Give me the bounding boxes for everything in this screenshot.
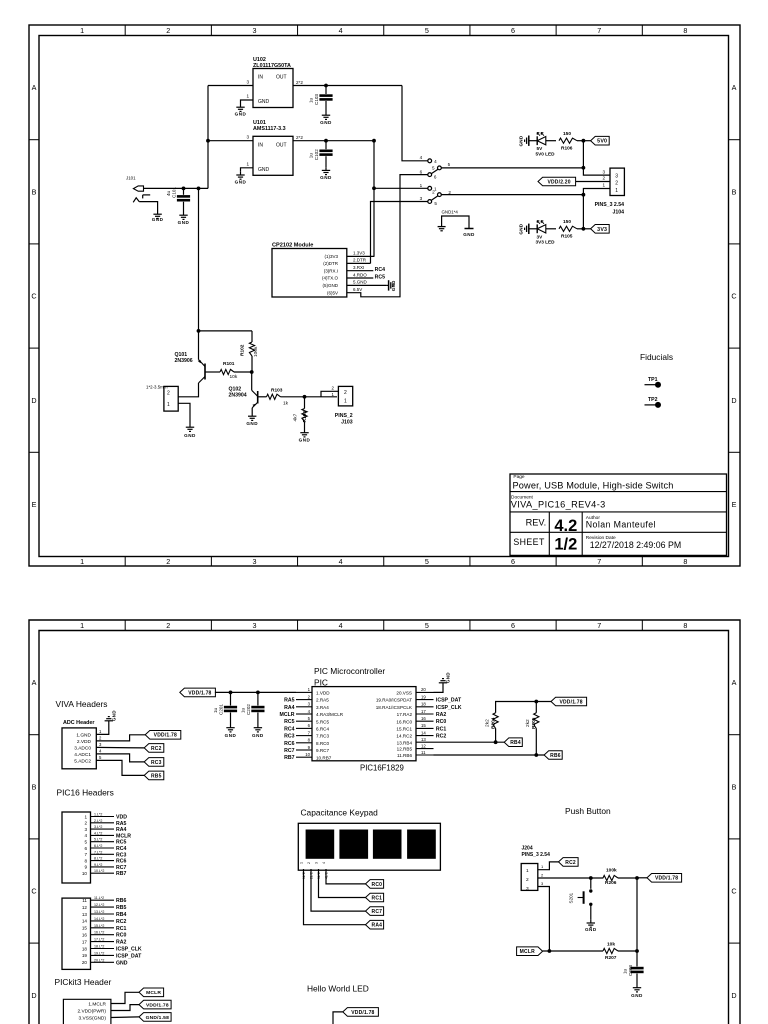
svg-text:GND/1.58: GND/1.58 <box>146 1015 169 1021</box>
svg-text:9: 9 <box>84 865 87 870</box>
svg-text:18.RA1/ICSPCLK: 18.RA1/ICSPCLK <box>376 705 413 710</box>
node 3V3 <box>582 227 586 231</box>
svg-text:PICkit3 Header: PICkit3 Header <box>55 977 112 987</box>
svg-text:19.RA0/ICSPDAT: 19.RA0/ICSPDAT <box>376 698 412 703</box>
net flag RB6 <box>544 751 562 760</box>
node C102 junction <box>324 139 328 143</box>
connector PIC16 header 11-20 body <box>62 898 91 969</box>
svg-text:GND: GND <box>152 217 164 222</box>
svg-text:17.RA2: 17.RA2 <box>397 712 413 717</box>
mcu right pin stubs <box>416 691 434 693</box>
svg-text:9.RC7: 9.RC7 <box>316 748 329 753</box>
svg-text:2: 2 <box>166 26 170 35</box>
svg-text:2k2: 2k2 <box>485 719 491 727</box>
svg-text:20: 20 <box>82 960 88 965</box>
svg-text:7: 7 <box>597 621 601 630</box>
switch S201 <box>590 878 592 889</box>
svg-text:RC4: RC4 <box>116 846 126 852</box>
svg-text:PINS_3 2.54: PINS_3 2.54 <box>595 202 625 208</box>
node R205 bottom <box>534 753 538 757</box>
svg-text:17: 17 <box>421 709 426 714</box>
svg-text:Fiducials: Fiducials <box>640 352 673 362</box>
svg-text:100k: 100k <box>606 867 617 873</box>
keypad wire RC7 <box>311 869 366 911</box>
ground J101 sleeve <box>152 211 164 222</box>
svg-text:2: 2 <box>166 621 170 630</box>
svg-text:RC1: RC1 <box>436 726 446 732</box>
svg-text:5: 5 <box>425 26 429 35</box>
resistor R102 <box>251 331 253 342</box>
node R204 bottom <box>494 740 498 744</box>
ground GND1*4 <box>465 228 474 230</box>
svg-text:5: 5 <box>432 166 435 171</box>
svg-text:7: 7 <box>597 26 601 35</box>
connector J104 body <box>610 168 624 195</box>
capacitor C202 <box>257 692 259 705</box>
svg-text:RC7: RC7 <box>284 748 294 754</box>
svg-text:R106: R106 <box>561 146 573 152</box>
net flag RC1 <box>366 893 384 902</box>
net flag RC3 ADC <box>144 758 164 767</box>
svg-text:AMS1117-3.3: AMS1117-3.3 <box>253 126 286 132</box>
wire 5V to jumper row6 <box>347 175 428 297</box>
svg-text:11.RB6: 11.RB6 <box>397 753 412 758</box>
svg-text:4: 4 <box>339 621 343 630</box>
ground ADC pin1 <box>105 710 117 724</box>
net flag MCLR button <box>517 947 543 956</box>
svg-text:7.L*2: 7.L*2 <box>94 850 102 854</box>
svg-text:GND: GND <box>631 993 643 998</box>
svg-text:4: 4 <box>99 749 102 754</box>
wire U102 output 5V <box>293 85 402 87</box>
svg-text:20: 20 <box>421 687 426 692</box>
svg-text:MCLR: MCLR <box>116 833 131 839</box>
svg-text:RC4: RC4 <box>375 267 385 273</box>
svg-text:A: A <box>732 678 737 687</box>
svg-text:VDD/1.78: VDD/1.78 <box>188 690 211 696</box>
svg-text:2: 2 <box>526 877 529 883</box>
svg-text:ICSP_CLK: ICSP_CLK <box>436 705 462 711</box>
svg-text:VDD: VDD <box>116 815 127 821</box>
svg-text:8: 8 <box>683 557 687 566</box>
svg-text:Capacitance Keypad: Capacitance Keypad <box>301 808 379 818</box>
svg-text:4.2: 4.2 <box>554 517 577 535</box>
svg-text:2.VDD: 2.VDD <box>77 739 92 745</box>
J101 sleeve contact <box>142 195 144 199</box>
svg-text:9: 9 <box>308 745 311 750</box>
svg-text:4: 4 <box>420 155 423 160</box>
svg-text:13: 13 <box>421 737 426 742</box>
svg-text:(2)DTR: (2)DTR <box>323 261 338 266</box>
svg-text:10: 10 <box>82 871 88 876</box>
svg-text:VDD/1.78: VDD/1.78 <box>655 876 678 882</box>
svg-text:GND: GND <box>258 99 270 105</box>
net flag RC0 <box>366 880 384 889</box>
svg-text:17.L*2: 17.L*2 <box>94 938 104 942</box>
mcu U201 PIC16F1829 body <box>312 687 416 761</box>
svg-text:GND: GND <box>299 438 311 443</box>
net flag RC2 button <box>559 858 579 867</box>
svg-text:RB5: RB5 <box>151 773 162 779</box>
svg-text:3: 3 <box>420 196 423 201</box>
svg-text:3: 3 <box>615 173 618 179</box>
svg-text:14.L*2: 14.L*2 <box>94 917 104 921</box>
svg-text:RB4: RB4 <box>510 740 521 746</box>
node C202 junction <box>256 691 260 695</box>
net flag VDD/1.78 led <box>343 1008 379 1017</box>
svg-text:2: 2 <box>99 736 102 741</box>
svg-text:GND: GND <box>235 112 247 117</box>
svg-text:TP2: TP2 <box>648 397 658 403</box>
connector J102 body <box>164 386 178 411</box>
svg-text:RB7: RB7 <box>116 871 126 877</box>
svg-text:(6)5V: (6)5V <box>327 290 338 295</box>
svg-text:1.GND: 1.GND <box>76 732 91 738</box>
ADC pin5 wire <box>96 760 144 775</box>
svg-text:C101: C101 <box>172 187 177 198</box>
svg-text:ICSP_DAT: ICSP_DAT <box>436 698 462 704</box>
resistor R206 <box>603 875 618 880</box>
CP2102 pin2 DTR wire <box>347 262 371 264</box>
svg-text:REV.: REV. <box>526 518 547 528</box>
node row5 junction <box>582 166 586 170</box>
svg-text:C: C <box>731 292 736 301</box>
keypad wire RA4 <box>304 869 366 925</box>
connector PIC16 header 1-10 body <box>62 812 91 883</box>
svg-text:RA2: RA2 <box>116 940 126 946</box>
svg-text:16.RC0: 16.RC0 <box>396 719 412 724</box>
regulator U101 body <box>253 136 293 175</box>
module CP2102 body <box>272 249 347 298</box>
svg-text:2: 2 <box>84 821 87 826</box>
svg-text:PIC16 Headers: PIC16 Headers <box>57 788 114 798</box>
svg-text:8.RC0: 8.RC0 <box>316 741 329 746</box>
svg-text:GND: GND <box>518 135 523 146</box>
wire 3V3 branch to jumper row1 <box>374 187 428 189</box>
svg-text:J204: J204 <box>522 846 533 852</box>
svg-text:R102: R102 <box>240 344 246 356</box>
svg-text:10.L*2: 10.L*2 <box>94 869 104 873</box>
keypad pad 1 <box>306 830 335 859</box>
svg-text:RC2: RC2 <box>151 746 162 752</box>
svg-text:8: 8 <box>683 26 687 35</box>
svg-text:17: 17 <box>82 939 88 944</box>
transistor Q102 <box>257 391 259 404</box>
ground U102 pin1 <box>235 104 247 117</box>
svg-text:13: 13 <box>82 912 88 917</box>
svg-text:RA4: RA4 <box>372 923 383 929</box>
svg-text:VDD/1.78: VDD/1.78 <box>351 1010 374 1016</box>
svg-text:(1)3V3: (1)3V3 <box>324 254 338 259</box>
svg-text:15: 15 <box>82 926 88 931</box>
svg-text:12.RB5: 12.RB5 <box>397 747 413 752</box>
wire R207 to node <box>618 950 637 952</box>
ground Q102 <box>246 413 258 426</box>
resistor R105 <box>559 226 577 231</box>
svg-text:MCLR: MCLR <box>520 949 535 955</box>
wire R206 to node <box>618 877 637 879</box>
svg-text:13.RB4: 13.RB4 <box>397 740 413 745</box>
svg-text:12.L*2: 12.L*2 <box>94 903 104 907</box>
svg-text:1: 1 <box>246 94 249 99</box>
jumper link 6-5 <box>431 169 438 174</box>
connector PICkit3 body <box>63 999 111 1024</box>
svg-text:Page: Page <box>513 474 525 480</box>
Q101 base wire <box>205 371 220 373</box>
svg-text:1: 1 <box>332 392 335 397</box>
svg-text:PIC16F1829: PIC16F1829 <box>360 763 404 772</box>
wire MCLR to R207 <box>543 950 603 952</box>
svg-text:IN: IN <box>258 75 263 81</box>
svg-text:3: 3 <box>246 135 249 140</box>
PIC16 header 11-20 pin wires and nets <box>91 899 115 901</box>
node MCLR junction <box>548 949 552 953</box>
CP2102 pin3 RXI wire <box>347 270 374 272</box>
svg-text:3: 3 <box>315 862 319 864</box>
wire 5V to jumper row4 <box>402 86 428 161</box>
wire 5V0 down to J104 pin3 <box>583 141 610 175</box>
svg-text:C103: C103 <box>314 94 319 105</box>
svg-text:4: 4 <box>84 833 87 838</box>
svg-text:19: 19 <box>82 953 88 958</box>
wire 3V3 vertical <box>373 141 375 257</box>
svg-text:8: 8 <box>308 738 311 743</box>
svg-text:1: 1 <box>602 183 605 188</box>
LED 3V3 <box>537 225 546 233</box>
svg-text:RC5: RC5 <box>284 719 294 725</box>
svg-text:RA4: RA4 <box>284 705 294 711</box>
wire Q102 collector <box>251 372 253 390</box>
svg-text:4k7: 4k7 <box>293 413 299 421</box>
wire S201 to gnd <box>590 904 592 920</box>
svg-text:19: 19 <box>421 694 426 699</box>
ground C103 <box>320 112 332 125</box>
U102 pin 1 wire <box>241 100 254 104</box>
svg-text:16: 16 <box>421 716 426 721</box>
svg-text:4: 4 <box>308 709 311 714</box>
svg-text:TP1: TP1 <box>648 377 658 383</box>
svg-text:C202: C202 <box>246 704 251 715</box>
svg-text:C102: C102 <box>314 149 319 160</box>
svg-text:5: 5 <box>434 201 437 206</box>
J204 pin1 wire <box>538 862 559 870</box>
capacitor C103 <box>325 86 327 95</box>
capacitor C203 <box>630 967 643 970</box>
svg-text:5.L*2: 5.L*2 <box>94 838 102 842</box>
svg-text:RB5: RB5 <box>116 905 126 911</box>
svg-text:GND: GND <box>246 421 258 426</box>
svg-text:D: D <box>31 991 36 1000</box>
wire Q101 collector to J102 <box>178 383 198 397</box>
svg-text:B: B <box>32 187 37 196</box>
resistor R104 <box>304 397 306 409</box>
svg-text:1.L*2: 1.L*2 <box>94 813 102 817</box>
svg-text:1: 1 <box>80 26 84 35</box>
transistor Q101 <box>204 364 206 380</box>
svg-text:C: C <box>731 887 736 896</box>
regulator U102 body <box>253 69 293 108</box>
wire 5V0 net to J104 <box>441 167 583 169</box>
svg-text:RB6: RB6 <box>116 898 126 904</box>
svg-text:1.MCLR: 1.MCLR <box>88 1001 106 1007</box>
ground R104 <box>299 430 311 443</box>
svg-text:J103: J103 <box>341 420 353 426</box>
J204 pin2 wire <box>538 877 604 879</box>
svg-text:1: 1 <box>84 814 87 819</box>
node 3V3 regulator out <box>372 139 376 143</box>
svg-text:4.RDO: 4.RDO <box>353 272 367 277</box>
svg-text:GND: GND <box>320 120 332 125</box>
svg-text:B: B <box>732 187 737 196</box>
svg-text:14: 14 <box>82 919 88 924</box>
svg-text:6.5V: 6.5V <box>353 287 362 292</box>
svg-text:10: 10 <box>305 752 310 757</box>
capacitor C101 <box>183 188 185 194</box>
mcu left pin stubs <box>296 691 312 693</box>
svg-text:10k: 10k <box>230 374 238 380</box>
GND1*4 bracket wire <box>442 216 469 229</box>
wire R101 to Q102 collector <box>234 371 252 373</box>
keypad pad 4 <box>407 830 436 859</box>
svg-text:2: 2 <box>602 176 605 181</box>
wire J102 pin1 to gnd <box>178 403 190 424</box>
net flag VDD/1.78 button <box>647 874 682 883</box>
svg-text:2*2: 2*2 <box>296 80 303 85</box>
svg-text:CP2102 Module: CP2102 Module <box>272 242 313 248</box>
svg-text:2*2: 2*2 <box>296 135 303 140</box>
node U101 input junction <box>206 139 210 143</box>
svg-text:RC6: RC6 <box>116 859 126 865</box>
svg-text:5: 5 <box>308 716 311 721</box>
svg-text:16: 16 <box>82 933 88 938</box>
svg-text:VDD/1.78: VDD/1.78 <box>559 699 582 705</box>
net flag GND/1.58 pickit3 <box>139 1013 171 1022</box>
keypad module body <box>298 823 440 870</box>
svg-text:GND: GND <box>225 733 237 738</box>
svg-text:15: 15 <box>421 723 426 728</box>
svg-text:1.VDD: 1.VDD <box>316 691 330 696</box>
svg-text:RC1: RC1 <box>116 926 126 932</box>
wire pin13 RB4 <box>434 741 505 743</box>
wire R103 to J103 <box>281 396 338 398</box>
svg-text:GND: GND <box>320 175 332 180</box>
ground 3V3 LED <box>518 223 531 234</box>
svg-text:RC7: RC7 <box>372 909 383 915</box>
svg-text:6: 6 <box>511 557 515 566</box>
svg-text:6: 6 <box>434 174 437 179</box>
svg-text:1u: 1u <box>240 707 245 713</box>
keypad wire RC0 <box>326 869 366 884</box>
svg-text:B: B <box>732 782 737 791</box>
svg-text:(5)GND: (5)GND <box>323 283 339 288</box>
svg-text:6: 6 <box>84 846 87 851</box>
svg-text:8: 8 <box>683 621 687 630</box>
wire LED to R105 <box>546 228 556 230</box>
wire to R102 <box>199 330 253 332</box>
jumper link 3-2 <box>431 196 438 201</box>
svg-text:6.L*2: 6.L*2 <box>94 844 102 848</box>
svg-text:OUT: OUT <box>276 75 287 81</box>
svg-text:1: 1 <box>80 621 84 630</box>
svg-text:3.L*2: 3.L*2 <box>94 825 102 829</box>
svg-text:10.RB7: 10.RB7 <box>316 755 332 760</box>
svg-text:1: 1 <box>420 183 423 188</box>
svg-text:SHEET: SHEET <box>513 537 545 547</box>
svg-text:D: D <box>31 396 36 405</box>
svg-text:B: B <box>32 782 37 791</box>
svg-text:3: 3 <box>252 557 256 566</box>
svg-text:IN: IN <box>258 142 263 148</box>
svg-text:9.L*2: 9.L*2 <box>94 863 102 867</box>
svg-text:GND: GND <box>111 710 116 721</box>
svg-text:RA4: RA4 <box>116 827 126 833</box>
svg-text:3V3 LED: 3V3 LED <box>536 240 556 245</box>
svg-text:5V: 5V <box>537 146 544 151</box>
svg-text:R206: R206 <box>605 880 617 886</box>
svg-text:5: 5 <box>448 162 451 167</box>
svg-text:2.L*2: 2.L*2 <box>94 819 102 823</box>
svg-text:(3)RX.I: (3)RX.I <box>324 268 338 273</box>
svg-text:5.RC5: 5.RC5 <box>316 719 329 724</box>
svg-text:3: 3 <box>99 742 102 747</box>
svg-text:150: 150 <box>563 219 571 225</box>
svg-text:8: 8 <box>84 858 87 863</box>
connector J101 USB power plug <box>133 186 143 191</box>
svg-text:ICSP_DAT: ICSP_DAT <box>116 953 142 959</box>
ADC pin1 gnd wire <box>96 724 109 734</box>
resistor R207 <box>603 948 618 953</box>
svg-text:3: 3 <box>541 881 544 886</box>
svg-text:E: E <box>732 500 737 509</box>
svg-text:R205: R205 <box>531 717 537 729</box>
svg-text:14: 14 <box>421 730 426 735</box>
svg-text:11: 11 <box>421 750 426 755</box>
svg-text:7: 7 <box>308 730 311 735</box>
svg-text:GND: GND <box>252 733 264 738</box>
svg-text:RA5: RA5 <box>116 821 126 827</box>
svg-text:GND: GND <box>184 433 196 438</box>
net flag RA4 <box>366 920 384 929</box>
wire into J103 pin2 <box>321 391 338 397</box>
svg-text:1: 1 <box>541 864 544 869</box>
svg-text:100k: 100k <box>253 346 259 357</box>
node row2 junction <box>582 193 586 197</box>
svg-text:PIC Microcontroller: PIC Microcontroller <box>314 666 385 676</box>
connector J103 body <box>338 386 352 406</box>
svg-text:2: 2 <box>432 189 435 194</box>
CP2102 pin1 3V3 wire <box>347 255 375 257</box>
resistor R103 <box>267 394 281 399</box>
svg-text:15.L*2: 15.L*2 <box>94 924 104 928</box>
svg-text:2.RA5: 2.RA5 <box>316 698 329 703</box>
Q102 base wire <box>258 396 267 398</box>
wire R105 to node <box>577 228 583 230</box>
resistor R205 <box>535 702 537 713</box>
svg-text:2.DTR: 2.DTR <box>353 258 367 263</box>
wire LED to R106 <box>546 140 556 142</box>
svg-text:3V: 3V <box>537 234 544 239</box>
svg-text:MCLR: MCLR <box>280 712 295 718</box>
wire 5V down to Q101 <box>198 188 200 359</box>
node 5V0 <box>582 139 586 143</box>
jumper pin 6 circle <box>428 173 432 177</box>
svg-text:5V0: 5V0 <box>597 139 607 145</box>
svg-text:Power, USB Module, High-side S: Power, USB Module, High-side Switch <box>513 481 674 491</box>
LED 5V0 <box>537 137 546 145</box>
svg-text:4: 4 <box>339 26 343 35</box>
svg-text:2: 2 <box>541 873 544 878</box>
svg-text:2: 2 <box>166 557 170 566</box>
